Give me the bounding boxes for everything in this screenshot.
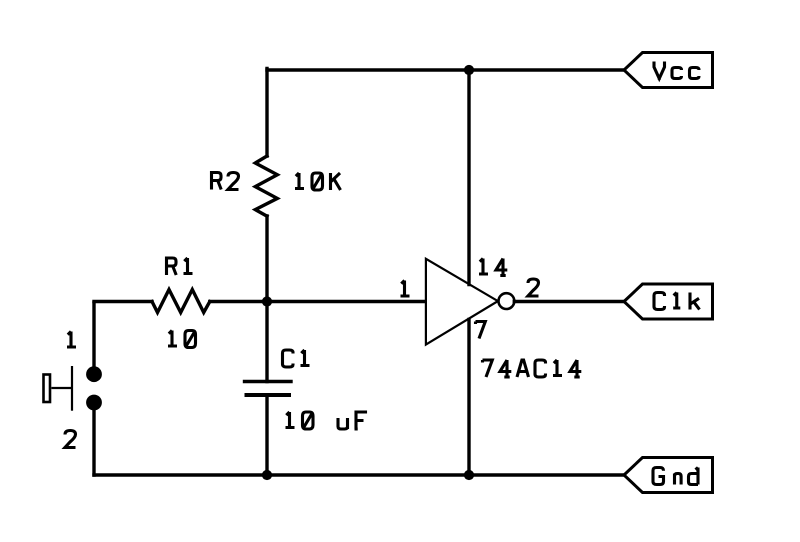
power flag Vcc: [624, 53, 713, 88]
net flag Gnd: [624, 458, 713, 493]
wire input net left: [94, 300, 152, 303]
pin number 14: [479, 259, 507, 276]
pin number 1 of switch: [67, 332, 76, 348]
pin number 2 of inverter: [528, 279, 539, 296]
wire R2 top: [265, 69, 268, 157]
node IC Gnd junction: [464, 470, 474, 480]
resistor R2: [255, 156, 277, 216]
capacitor C1 plate top: [245, 380, 292, 383]
net name Vcc: [654, 62, 699, 80]
value 10K: [295, 173, 341, 190]
pushbutton actuator bar: [71, 366, 73, 411]
pin number 7: [476, 322, 486, 339]
part name 74AC14: [483, 360, 582, 377]
value 10 uF: [286, 412, 366, 429]
pin number 2 of switch: [65, 431, 76, 448]
wire C1 upper: [265, 302, 268, 382]
inverter output bubble: [499, 293, 515, 309]
pin number 1 of inverter: [401, 281, 410, 297]
pushbutton switch contact 1: [86, 366, 102, 382]
net name Clk: [654, 293, 700, 310]
inverter U1 74AC14 triangle: [426, 259, 498, 345]
wire switch upper: [92, 303, 95, 374]
wire Vcc top rail: [267, 68, 624, 71]
net flag Clk: [624, 284, 713, 319]
reference R1: [167, 258, 193, 275]
reference R2: [212, 173, 239, 190]
pushbutton cap: [44, 375, 51, 403]
wire switch lower: [92, 403, 95, 476]
wire R2 to node: [265, 216, 268, 302]
net name Gnd: [653, 468, 698, 485]
wire input net right: [210, 300, 425, 303]
node Vcc junction: [464, 65, 474, 75]
node R1 C1 R2 junction: [262, 296, 272, 306]
resistor R1: [152, 290, 210, 313]
wire Vcc to pin 14: [467, 70, 470, 285]
wire output net: [514, 300, 624, 303]
reference C1: [283, 350, 310, 367]
wire Gnd bottom rail: [94, 473, 624, 476]
pushbutton switch contact 2: [86, 395, 102, 411]
value 10: [168, 331, 196, 348]
node C1 Gnd junction: [262, 470, 272, 480]
pushbutton actuator stem: [51, 387, 72, 389]
wire C1 lower: [265, 395, 268, 475]
capacitor C1 plate bottom: [245, 393, 292, 397]
wire pin 7 to Gnd: [467, 320, 470, 476]
